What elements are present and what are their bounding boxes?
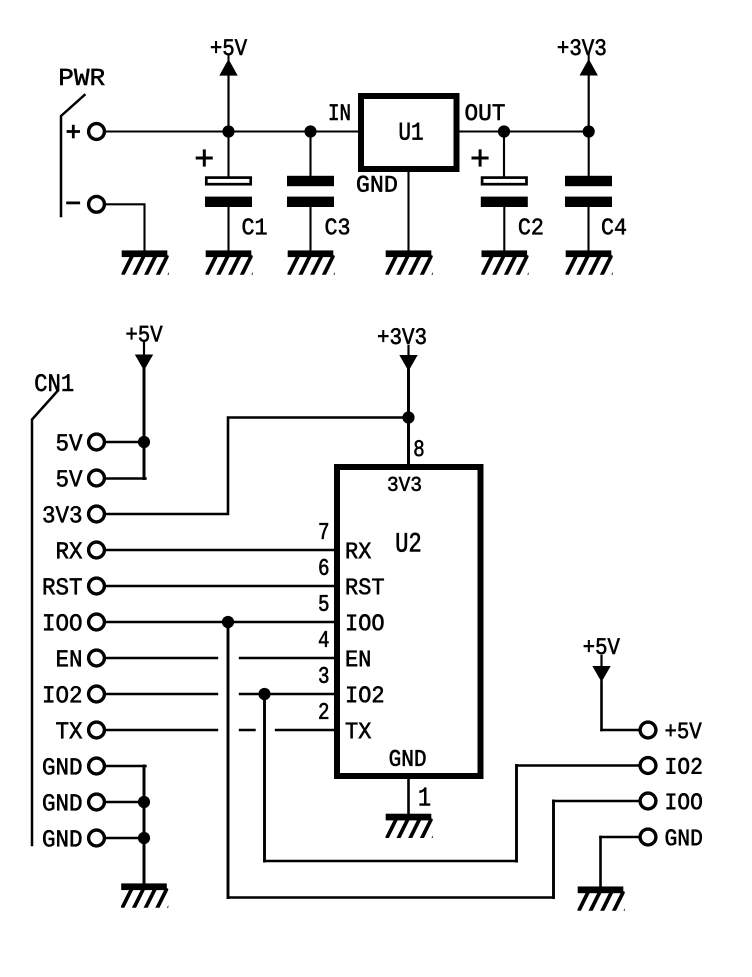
junction 5V pin1 xyxy=(138,436,150,448)
wire IO0 bottom horizontal xyxy=(228,896,554,899)
microcontroller U2 box xyxy=(337,467,481,776)
wire +3V3 down to node xyxy=(407,371,410,418)
wire EN segment 2 xyxy=(240,657,334,659)
wire 5V pin2 xyxy=(106,477,146,479)
wire +3V3 to node xyxy=(588,75,590,132)
wire U1 GND to ground xyxy=(407,172,409,251)
CN1 pin label IO2 xyxy=(44,686,81,703)
power +5V arrow right xyxy=(600,656,602,667)
junction IO2 xyxy=(258,688,270,700)
wire RX xyxy=(106,549,334,551)
ground U1 xyxy=(386,250,443,274)
capacitor C3 label xyxy=(326,218,349,234)
wire C2 to ground xyxy=(503,207,505,251)
wire PWR minus to ground xyxy=(106,204,145,251)
wire node to U2 pin 8 xyxy=(407,418,410,468)
ground C3 xyxy=(288,250,345,274)
connector CN1 label xyxy=(35,374,73,391)
microcontroller U2 label xyxy=(397,533,420,552)
wire +5V right to pin xyxy=(602,729,639,732)
wire node to C2 xyxy=(503,132,505,178)
wire IO0 xyxy=(106,621,334,623)
wire IO2 bottom horizontal xyxy=(265,860,517,863)
header pin IO2 xyxy=(640,758,656,774)
wire 5V pin1 xyxy=(106,441,144,443)
power +5V label CN1 xyxy=(127,326,163,342)
wire +5V right down xyxy=(600,682,603,731)
ground right header xyxy=(578,886,635,910)
CN1 pin 5V row y=442 xyxy=(89,434,105,450)
CN1 pin label EN xyxy=(57,650,80,666)
connector CN1 bracket xyxy=(32,391,58,845)
wire IO0 to pin xyxy=(554,800,639,803)
CN1 pin label IO0 xyxy=(44,614,81,631)
wire GND pin1 xyxy=(106,765,146,767)
connector PWR bracket xyxy=(61,95,85,216)
U2 pin number 3 xyxy=(319,667,328,683)
CN1 pin 5V row y=478 xyxy=(89,470,105,486)
junction GND pin3 xyxy=(138,832,150,844)
ground C4 xyxy=(566,250,623,274)
wire C4 to ground xyxy=(587,207,589,251)
CN1 pin label RST xyxy=(44,578,82,595)
junction node C2 xyxy=(498,125,510,137)
power +3V3 arrow top xyxy=(580,59,598,76)
capacitor C4 label xyxy=(602,218,626,234)
wire GND chain vertical xyxy=(143,766,146,884)
power +5V arrow CN1 xyxy=(143,343,145,356)
wire IO2 rise xyxy=(515,766,518,862)
wire U2 pin 1 to ground xyxy=(407,776,410,814)
U2 pin number 8 xyxy=(414,440,423,456)
CN1 pin TX row y=730 xyxy=(89,722,105,738)
wire U1 OUT to +3V3 node xyxy=(460,130,589,132)
CN1 pin 3V3 row y=514 xyxy=(89,506,105,522)
U2 pin label RX xyxy=(347,543,371,559)
wire PWR plus to U1 IN xyxy=(106,130,358,132)
PWR minus terminal label xyxy=(68,201,79,204)
regulator U1 box xyxy=(361,96,457,169)
CN1 pin label RX xyxy=(57,542,82,558)
wire GND right down xyxy=(599,837,602,887)
CN1 pin EN row y=658 xyxy=(89,650,105,666)
wire +5V down to 5V pins xyxy=(143,370,146,479)
wire TX segment 1 xyxy=(106,729,217,731)
capacitor C1 label xyxy=(243,218,267,234)
wire IO2 segment 2 xyxy=(240,693,334,695)
wire IO0 rise xyxy=(552,801,555,898)
capacitor C3 plates xyxy=(287,176,334,186)
wire node to C3 xyxy=(309,132,311,177)
header pin label IO2 xyxy=(667,758,702,774)
wire TX segment 3 xyxy=(276,729,334,731)
wire C1 to ground xyxy=(227,207,229,251)
junction node C1 xyxy=(222,125,234,137)
wire GND pin3 xyxy=(106,837,144,839)
U2 pin label RST xyxy=(347,578,384,594)
wire IO0 vertical xyxy=(227,622,230,898)
U2 pin number 4 xyxy=(319,631,329,647)
power +3V3 label top xyxy=(558,39,606,55)
header pin label +5V xyxy=(666,723,702,739)
CN1 pin GND row y=766 xyxy=(89,758,105,774)
U2 pin number 6 xyxy=(319,559,328,575)
PWR minus pin xyxy=(89,196,105,212)
U2 pin label 3V3 xyxy=(388,477,421,491)
ground CN1 xyxy=(121,883,178,907)
power +5V arrow top xyxy=(219,59,237,76)
ground C2 xyxy=(482,250,539,274)
CN1 pin label GND xyxy=(43,758,81,775)
wire 3V3 pin to U2 node xyxy=(106,418,409,515)
CN1 pin IO0 row y=622 xyxy=(89,614,105,630)
junction IO0 xyxy=(222,616,234,628)
wire IO2 vertical xyxy=(263,694,266,861)
power +5V label top xyxy=(211,39,247,55)
CN1 pin IO2 row y=694 xyxy=(89,686,105,702)
header pin GND xyxy=(640,829,656,845)
U2 pin label TX xyxy=(346,723,371,739)
capacitor C2 label xyxy=(519,218,542,234)
pin label GND U1 xyxy=(357,176,397,192)
wire GND pin2 xyxy=(106,801,144,803)
U2 pin label IO2 xyxy=(347,686,383,702)
wire IO2 to pin xyxy=(517,764,639,767)
junction node C4 xyxy=(583,125,595,137)
PWR plus terminal label xyxy=(68,130,79,133)
U2 pin number 5 xyxy=(319,595,328,611)
wire +5V to node xyxy=(227,75,229,132)
PWR plus pin xyxy=(89,124,105,140)
CN1 pin label 3V3 xyxy=(43,506,81,522)
CN1 pin RST row y=586 xyxy=(89,578,105,594)
wire C3 to ground xyxy=(309,207,311,251)
header pin label IO0 xyxy=(667,793,702,809)
U2 pin label EN xyxy=(347,651,370,667)
wire node to C4 xyxy=(588,132,590,177)
power +3V3 arrow CN1 xyxy=(407,346,409,356)
CN1 pin label GND xyxy=(43,794,81,811)
connector PWR label xyxy=(60,69,104,85)
power +5V label right xyxy=(584,638,620,654)
junction node C3 xyxy=(304,125,316,137)
wire RST xyxy=(106,585,334,587)
pin label OUT xyxy=(466,104,505,120)
CN1 pin label 5V xyxy=(57,470,83,486)
CN1 pin GND row y=838 xyxy=(89,830,105,846)
wire TX segment 2 xyxy=(240,729,255,731)
ground PWR minus xyxy=(122,250,179,274)
wire GND pin right xyxy=(601,836,639,839)
U2 pin number 1 xyxy=(420,788,430,806)
header pin +5V xyxy=(640,722,656,738)
header pin label GND xyxy=(666,829,702,845)
pin label IN xyxy=(330,104,350,120)
capacitor C4 plates xyxy=(565,176,612,186)
U2 pin label GND xyxy=(390,750,426,766)
capacitor C2 plates xyxy=(482,178,526,185)
junction 3V3 node xyxy=(402,411,414,423)
regulator U1 label xyxy=(400,123,423,140)
wire IO2 segment 1 xyxy=(106,693,217,695)
CN1 pin GND row y=802 xyxy=(89,794,105,810)
wire node to C1 xyxy=(227,132,229,178)
U2 pin label IO0 xyxy=(347,614,383,630)
U2 pin number 2 xyxy=(319,703,328,719)
ground U2 xyxy=(386,814,443,838)
CN1 pin label GND xyxy=(43,830,81,847)
CN1 pin RX row y=550 xyxy=(89,542,105,558)
CN1 pin label 5V xyxy=(57,434,83,450)
power +3V3 label CN1 xyxy=(378,328,426,344)
CN1 pin label TX xyxy=(56,722,82,738)
junction GND pin2 xyxy=(138,796,150,808)
ground C1 xyxy=(206,250,263,274)
header pin IO0 xyxy=(640,793,656,809)
capacitor C1 plates xyxy=(206,178,250,185)
U2 pin number 7 xyxy=(320,523,329,539)
wire EN segment 1 xyxy=(106,657,217,659)
